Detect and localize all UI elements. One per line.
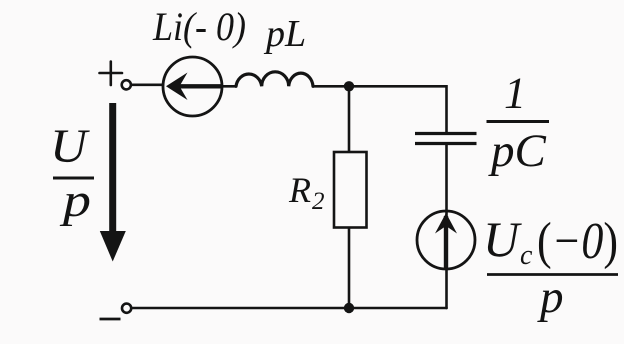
- svg-text:Li(- 0): Li(- 0): [152, 4, 246, 49]
- svg-text:pL: pL: [263, 13, 306, 55]
- svg-text:U: U: [483, 211, 522, 267]
- svg-text:c: c: [520, 240, 533, 271]
- svg-text:p: p: [537, 271, 564, 323]
- svg-text:2: 2: [312, 188, 325, 215]
- svg-text:pC: pC: [488, 125, 547, 177]
- svg-text:p: p: [60, 174, 92, 227]
- svg-text:1: 1: [504, 69, 526, 118]
- svg-text:U: U: [50, 120, 91, 173]
- svg-text:(−0): (−0): [537, 213, 618, 270]
- svg-text:R: R: [288, 170, 311, 210]
